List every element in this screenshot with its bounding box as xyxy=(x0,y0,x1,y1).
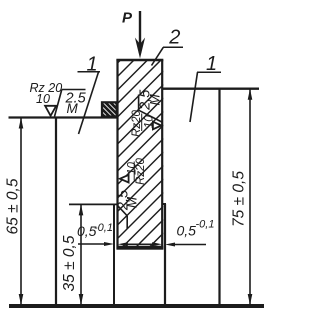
label 2 leader xyxy=(152,47,164,65)
specimen 2: left face xyxy=(116,60,118,250)
treatment shelf 2.5/M (left surface) xyxy=(55,90,87,117)
specimen 2: top edge xyxy=(116,59,163,61)
label 1 left leader xyxy=(79,72,99,134)
block 1 right: recess cap edge xyxy=(162,203,167,205)
gap dimension text 0,5-0,1 left xyxy=(77,222,113,239)
specimen 2: section hatching xyxy=(118,17,164,293)
block 1 left: recess face xyxy=(113,204,115,305)
gap dimension inner double arrow xyxy=(118,242,162,246)
force arrow P xyxy=(135,11,145,59)
svg-text:-0,1: -0,1 xyxy=(94,222,113,234)
svg-text:M: M xyxy=(147,94,162,106)
svg-text:Rz20: Rz20 xyxy=(135,157,147,184)
svg-text:35 ± 0,5: 35 ± 0,5 xyxy=(61,235,78,291)
svg-text:0,5: 0,5 xyxy=(177,223,197,239)
dimension line 35 with arrows xyxy=(79,204,84,305)
block 1 left: left edge xyxy=(55,118,57,306)
gap dimension text 0,5-0,1 right xyxy=(177,219,215,239)
svg-text:M: M xyxy=(124,196,139,208)
label 1 left underline xyxy=(78,71,101,73)
base plate top line xyxy=(9,304,264,308)
block 1 left: top surface (65 level) xyxy=(9,116,118,118)
svg-text:M: M xyxy=(67,101,79,116)
svg-text:75 ± 0,5: 75 ± 0,5 xyxy=(231,171,248,227)
gap dimension arrow left outer xyxy=(78,242,114,246)
svg-text:Rz20: Rz20 xyxy=(131,109,143,136)
block 1 right: top surface (75 level) xyxy=(162,87,260,89)
specimen 2: right face xyxy=(161,60,163,250)
clamp key block on left block surface xyxy=(96,83,126,138)
block 1 right: recess face xyxy=(164,204,166,305)
svg-text:P: P xyxy=(122,9,133,26)
specimen 2: bottom edge xyxy=(117,246,164,250)
svg-text:-0,1: -0,1 xyxy=(196,219,215,231)
block 1 right: right edge xyxy=(218,89,220,305)
gap dimension arrow right outer xyxy=(165,243,206,247)
label 1 right leader xyxy=(190,72,198,122)
label 1 right underline xyxy=(197,71,221,73)
svg-text:10: 10 xyxy=(143,115,155,128)
svg-text:65 ± 0,5: 65 ± 0,5 xyxy=(5,178,22,234)
roughness triangle mark (left surface) xyxy=(45,106,56,116)
svg-text:10: 10 xyxy=(36,92,50,106)
dimension line 65 with arrows xyxy=(19,118,24,306)
dimension line 75 with arrows xyxy=(248,89,253,305)
block 1 left: recess ledge (35 level) xyxy=(69,203,117,205)
roughness mark on specimen right face (Rz20/10, 2,5/M rotated) xyxy=(131,89,163,137)
roughness value Rz 20 over 10 (left surface) xyxy=(30,81,63,106)
svg-text:2: 2 xyxy=(168,26,180,48)
roughness mark on specimen left face (Rz20/10, 2,5/M rotated) xyxy=(116,157,147,228)
label 2 underline xyxy=(163,46,183,48)
